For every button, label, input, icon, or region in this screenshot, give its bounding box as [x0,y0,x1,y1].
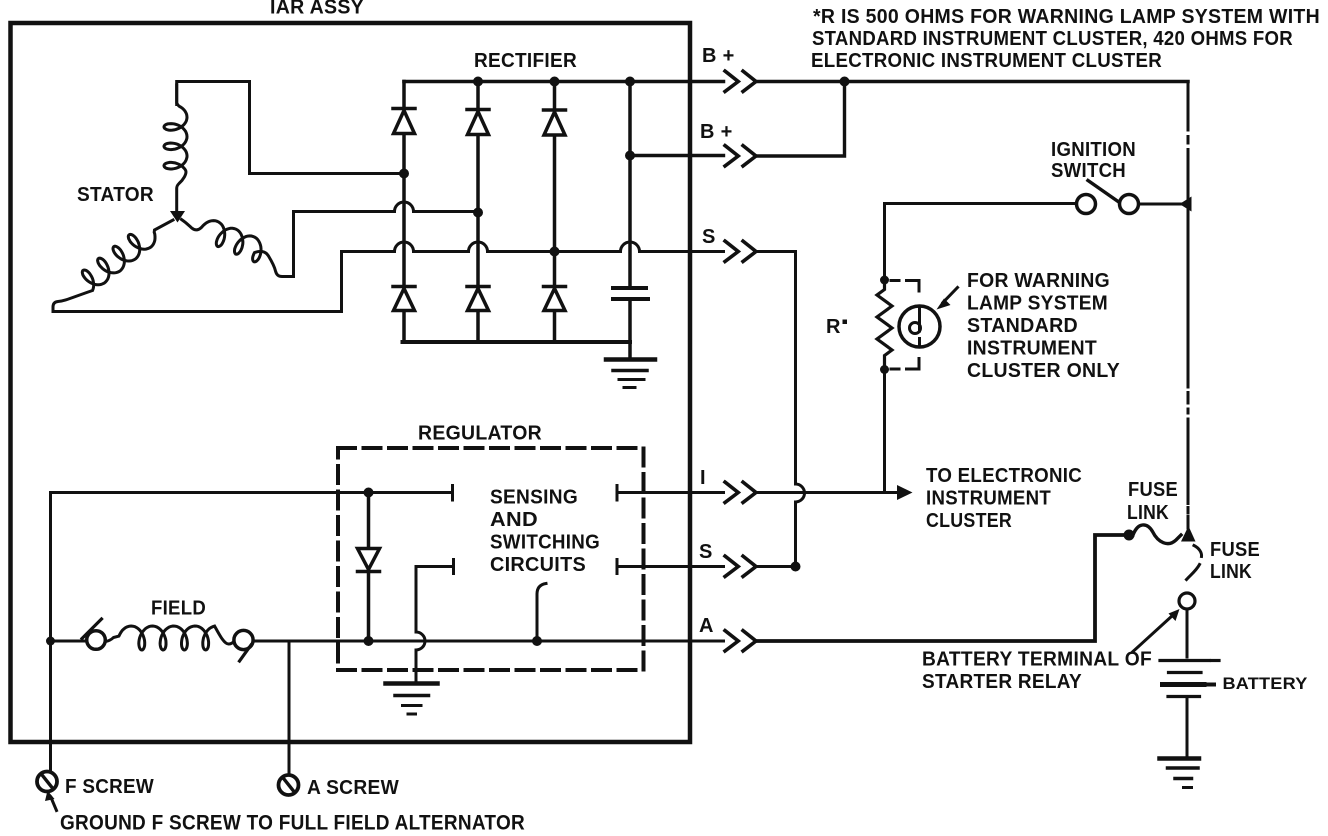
svg-text:ELECTRONIC INSTRUMENT CLUSTER: ELECTRONIC INSTRUMENT CLUSTER [811,50,1162,72]
wire A line through regulator [369,640,724,643]
hop ground line over A line [416,632,425,682]
wire A line from field [254,640,369,643]
node fuse link start [1124,530,1135,541]
label FUSE LINK 2 [1210,539,1260,583]
svg-text:CIRCUITS: CIRCUITS [490,554,586,576]
diode D2 [467,110,489,135]
regulator internal text [490,487,600,577]
wire rectifier column 1 [402,82,406,343]
svg-text:B +: B + [700,121,733,143]
wire S lower to junction [757,565,796,568]
note text battery terminal [922,649,1152,694]
svg-text:B +: B + [702,45,735,67]
terminal arrow I [725,482,756,502]
svg-text:STANDARD: STANDARD [967,315,1078,337]
diode D1 [393,109,415,134]
hop phase3 over column2 [469,242,488,252]
wire A to battery circuit [757,535,1125,641]
svg-text:TO ELECTRONIC: TO ELECTRONIC [926,465,1082,487]
node I-diode junction [364,488,374,498]
node resistor top [880,276,889,285]
F screw terminal [37,772,57,792]
svg-text:FIELD: FIELD [151,598,206,620]
node phase3-diode junction [550,247,560,257]
wire top rail B+ rail [404,80,1188,84]
hop S-line over column4 [621,242,640,252]
node rail-col3 [550,77,560,87]
node A-switching junction [532,636,542,646]
svg-text:STANDARD INSTRUMENT CLUSTER, 4: STANDARD INSTRUMENT CLUSTER, 420 OHMS FO… [812,28,1293,50]
dashed bracket around warning lamp [891,281,919,370]
wire left bus vertical [49,493,52,772]
terminal arrow B+ first [725,71,756,91]
hop phase3 over column1 [395,242,414,252]
svg-text:BATTERY: BATTERY [1223,674,1308,693]
wire rectifier column 3 [553,82,557,343]
wire B+ second [630,82,845,157]
arrowhead at ignition feed junction [1180,197,1192,212]
svg-text:REGULATOR: REGULATOR [418,423,542,445]
svg-text:R: R [826,316,841,338]
arrow to lamp from note [937,288,958,310]
wire stator phase 1 top [177,82,404,174]
field brush terminal 2 [234,630,253,661]
wire S internal with tick [416,560,454,633]
node A-diode junction [364,636,374,646]
svg-text:IGNITION: IGNITION [1051,139,1136,161]
ground battery [1160,759,1200,788]
A screw terminal [279,775,299,795]
wire stator phase 3 run [53,252,555,312]
wire rectifier bottom rail [403,340,631,344]
field brush terminal 1 [82,619,105,649]
node phase1-diode junction [399,169,409,179]
svg-text:STARTER RELAY: STARTER RELAY [922,671,1082,693]
fuse link 2 connector circle [1179,593,1195,609]
label R* [826,316,847,338]
wire S output upper [555,252,796,485]
wire stator phase 2 run [294,212,479,277]
stator coil phase 1 [164,85,187,211]
svg-text:AND: AND [490,509,538,531]
node resistor bottom [880,365,889,374]
svg-text:IAR ASSY: IAR ASSY [270,0,364,19]
node B+2 tap [625,151,635,161]
wire A line left [51,640,88,643]
regulator dashed box [338,448,644,670]
ignition switch [885,181,1186,214]
node phase2-diode junction [473,208,483,218]
svg-text:I: I [700,467,706,489]
node rail-col2 [473,77,483,87]
svg-text:FUSE: FUSE [1210,539,1260,561]
svg-text:F SCREW: F SCREW [65,776,154,798]
node B+ merge [840,77,850,87]
svg-text:A SCREW: A SCREW [307,777,399,799]
warning lamp [899,306,940,347]
field coil [105,626,234,650]
stator coil phase 2 (right) [182,220,294,277]
svg-text:LAMP SYSTEM: LAMP SYSTEM [967,293,1108,315]
node A line left [46,637,55,646]
wire connector to battery [1186,609,1189,657]
wire rectifier column 2 [476,82,480,343]
terminal arrow A [725,631,756,651]
label FUSE LINK 1 [1127,479,1178,524]
note text top right [811,6,1320,72]
hop S-vertical over I-line [796,484,805,567]
stator coil phase 3 (left) [53,220,173,312]
ground regulator [386,684,438,715]
IAR assembly box [11,23,691,742]
diode D5 [467,287,489,311]
svg-text:*R IS 500 OHMS FOR WARNING LAM: *R IS 500 OHMS FOR WARNING LAMP SYSTEM W… [813,6,1320,28]
note text to electronic instrument cluster [926,465,1082,532]
wire battery to ground [1186,697,1189,757]
arrowhead fuse link junction [1181,526,1196,542]
svg-text:S: S [702,226,716,248]
svg-text:LINK: LINK [1127,502,1169,524]
svg-text:STATOR: STATOR [77,184,154,206]
resistor R* [877,280,892,370]
fuse link 1 [1133,525,1181,544]
wire column 4 capacitor branch [628,82,632,358]
fuse link 2 (dashed curve) [1187,546,1202,580]
wire I output right with tick [617,486,724,501]
svg-text:S: S [699,541,713,563]
svg-text:LINK: LINK [1210,561,1252,583]
note text warning lamp [967,270,1120,382]
wire A-screw drop [288,641,291,772]
ground rectifier [606,360,655,388]
svg-text:SENSING: SENSING [490,487,578,509]
diode D3 [544,110,566,135]
capacitor C1 [613,288,648,299]
svg-text:RECTIFIER: RECTIFIER [474,50,577,72]
diode D4 [393,287,415,311]
node rail-col4 [625,77,635,87]
arrow to starter relay circle [1133,609,1180,652]
terminal arrow S upper [725,241,756,261]
svg-text:FUSE: FUSE [1128,479,1178,501]
wire ignition to resistor [883,204,886,281]
svg-text:GROUND F SCREW TO FULL FIELD A: GROUND F SCREW TO FULL FIELD ALTERNATOR [60,811,525,835]
arrowhead to electronic cluster [897,485,913,500]
label IGNITION SWITCH [1051,139,1136,182]
svg-text:CLUSTER ONLY: CLUSTER ONLY [967,360,1120,382]
wire S output right with tick [617,560,724,574]
wire I to instrument cluster [757,491,903,494]
arrow to F screw [45,791,57,811]
hop phase2 over column1 [395,202,414,211]
svg-text:BATTERY TERMINAL OF: BATTERY TERMINAL OF [922,649,1152,671]
switching circuits lead with hook [537,584,546,642]
terminal tick I internal [451,486,454,501]
wire right bus vertical (dash-dot sections) [1187,82,1190,529]
svg-text:INSTRUMENT: INSTRUMENT [967,338,1097,360]
svg-text:SWITCH: SWITCH [1051,160,1126,182]
wire resistor to I line [883,370,886,493]
svg-text:A: A [699,615,714,637]
wire I sense line [51,491,452,494]
node stator Y-center [170,211,185,223]
svg-text:FOR WARNING: FOR WARNING [967,270,1110,292]
terminal arrow S lower [725,556,756,576]
terminal arrow B+ second [725,146,756,166]
svg-text:INSTRUMENT: INSTRUMENT [926,488,1051,510]
svg-text:SWITCHING: SWITCHING [490,532,600,554]
diode D6 [544,287,566,311]
battery [1160,661,1219,697]
node S junction [791,562,801,572]
svg-text:CLUSTER: CLUSTER [926,510,1012,532]
diode CR1 regulator [358,493,380,642]
